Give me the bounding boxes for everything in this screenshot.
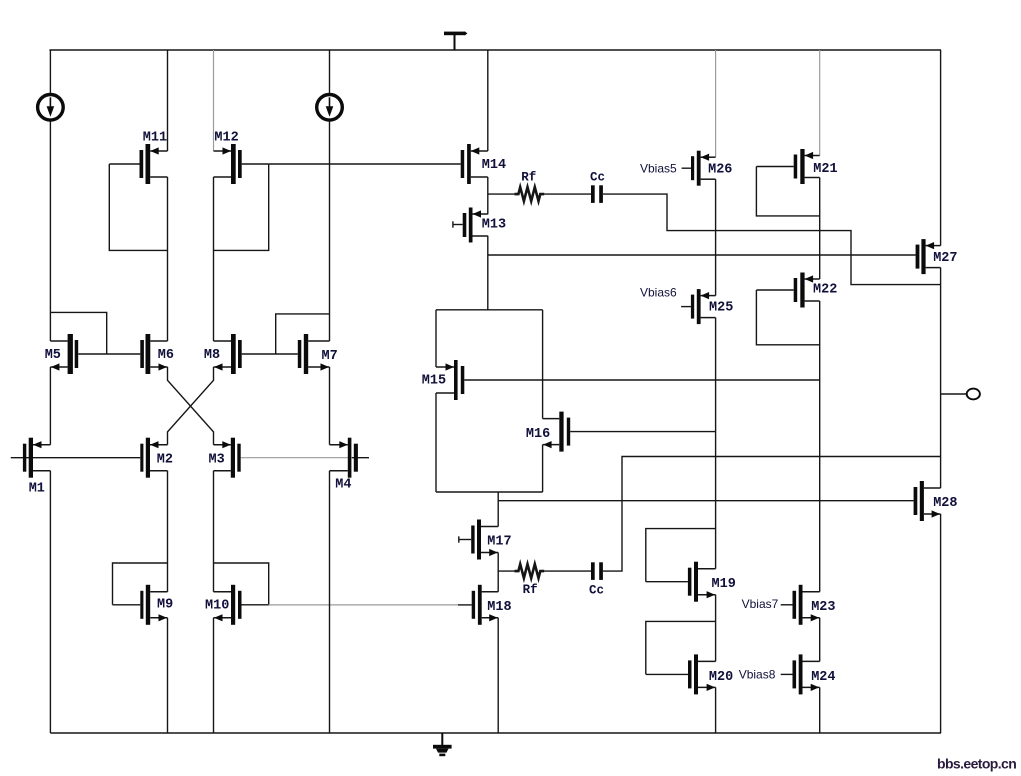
wire M9 diode gate loop (113, 563, 168, 605)
power VDD symbol (444, 31, 467, 50)
wire M21 drain to M22 source (819, 178, 821, 280)
svg-text:M3: M3 (209, 453, 225, 468)
svg-text:M25: M25 (709, 301, 733, 316)
wire node B to Rf2 (498, 570, 514, 572)
current source I1 (38, 95, 64, 121)
wire M5 source to M1 source (49, 367, 51, 445)
wire box to M17 drain (497, 492, 499, 527)
wire Vbias8 stub to M24 gate (781, 673, 793, 675)
wire box right upper to M16 drain (542, 310, 544, 419)
wire M3 drain to M10 drain (213, 471, 215, 592)
transistor M23 (793, 585, 820, 625)
wire M27 gate line (488, 254, 916, 256)
transistor M6 (140, 334, 167, 374)
output terminal (967, 389, 980, 400)
wire VDD to M26 source (715, 50, 717, 157)
wire VDD to M21 source (819, 50, 821, 156)
transistor M9 (140, 585, 167, 625)
svg-text:M5: M5 (45, 348, 61, 363)
transistor M28 (914, 481, 941, 521)
wire M18 source to VSS rail (497, 618, 499, 733)
transistor M3 (214, 438, 241, 478)
svg-text:Vbias5: Vbias5 (640, 162, 677, 176)
transistor M20 (688, 654, 716, 694)
svg-text:M8: M8 (204, 348, 220, 363)
svg-text:M21: M21 (813, 162, 837, 177)
transistor M26 (691, 151, 716, 186)
wire I1 to M5 drain (49, 120, 51, 341)
transistor M21 (794, 149, 820, 184)
svg-text:M24: M24 (811, 670, 835, 685)
wire M5 diode gate-drain loop (50, 312, 106, 354)
wire Rf2 to Cc2 (544, 570, 591, 572)
wire M19 diode gate loop (646, 529, 716, 582)
wire M7 source to M4 source (329, 367, 331, 445)
svg-text:M22: M22 (813, 283, 837, 298)
wire Vbias6 stub to M25 gate (681, 306, 691, 308)
wire M11 drain to M6 drain (167, 177, 169, 341)
svg-text:M7: M7 (322, 349, 338, 364)
wire M5-M6 gate line (78, 353, 140, 355)
svg-text:Vbias7: Vbias7 (742, 597, 779, 611)
svg-text:M4: M4 (335, 478, 351, 493)
wire output stub (941, 393, 967, 395)
transistor M5 (50, 334, 78, 374)
wire M4 drain to VSS rail (329, 471, 331, 733)
transistor M2 (140, 438, 167, 478)
wire Cc2 up and right to output node (603, 457, 941, 572)
wire VDD to M27 source (940, 50, 942, 246)
wire M8 source cross to M2 source (168, 367, 214, 445)
wire M12 gate to M14 gate (269, 163, 461, 165)
wire M23 source to M24 drain (819, 618, 821, 662)
svg-text:Vbias6: Vbias6 (640, 286, 677, 300)
transistor M12 (214, 144, 242, 184)
wire M13 drain down to M15 box (487, 236, 489, 310)
wire Vbias5 stub to M26 gate (682, 167, 691, 169)
wire M10 gate to M18 gate (269, 604, 458, 606)
transistor M25 (691, 289, 716, 324)
wire input IN- to M1/M2 gates (11, 457, 141, 459)
wire M24 source to VSS rail (819, 687, 821, 733)
wire M14 drain to M13 source, node A (487, 177, 489, 214)
transistor M14 (461, 144, 488, 184)
wire M22 diode gate loop (756, 290, 819, 345)
svg-text:M28: M28 (933, 496, 957, 511)
svg-text:M13: M13 (482, 218, 506, 233)
wire Vbias7 stub to M23 gate (781, 604, 793, 606)
svg-text:M9: M9 (157, 598, 173, 613)
wire M7-M8 diode gate loop (242, 314, 330, 354)
capacitor Cc1 (591, 185, 595, 203)
svg-text:M12: M12 (214, 131, 238, 146)
wire M15 gate to M22 drain (464, 379, 819, 381)
transistor M13 (463, 208, 488, 243)
wire M1 drain to VSS rail (49, 471, 51, 733)
wire VSS bottom rail (50, 732, 941, 734)
svg-text:M27: M27 (933, 251, 957, 266)
svg-text:bbs.eetop.cn: bbs.eetop.cn (937, 756, 1016, 772)
wire M13 gate stub (453, 221, 463, 227)
svg-text:Vbias8: Vbias8 (739, 668, 776, 682)
wire M21 diode gate loop (756, 167, 819, 216)
wire M2 drain to M9 drain (167, 471, 169, 592)
svg-text:M23: M23 (811, 600, 835, 615)
svg-text:M17: M17 (487, 535, 511, 550)
wire box left upper to M15 source (435, 310, 437, 367)
transistor M4 (330, 438, 358, 478)
svg-text:M16: M16 (526, 427, 550, 442)
svg-text:M2: M2 (157, 453, 173, 468)
transistor M27 (916, 239, 941, 274)
wire VDD to M12 source (213, 50, 215, 151)
wire node A to Rf1 (488, 193, 515, 195)
svg-text:M10: M10 (205, 599, 229, 614)
wire M20 source to VSS rail (715, 687, 717, 733)
svg-text:M1: M1 (29, 482, 45, 497)
transistor M19 (688, 562, 716, 602)
transistor M11 (140, 144, 168, 184)
wire box bottom (436, 491, 543, 493)
svg-text:M11: M11 (143, 131, 167, 146)
transistor M1 (23, 438, 51, 478)
transistor M17 (471, 520, 498, 560)
svg-text:M26: M26 (708, 163, 732, 178)
svg-text:Cc: Cc (589, 584, 604, 598)
svg-text:Cc: Cc (590, 171, 605, 185)
wire M17 gate stub (459, 536, 471, 542)
capacitor Cc2 (591, 562, 595, 580)
wire M12 diode gate loop (214, 164, 269, 250)
transistor M22 (794, 273, 820, 308)
svg-text:M18: M18 (487, 600, 511, 615)
svg-text:M15: M15 (422, 374, 446, 389)
wire M22 drain down to M23 drain (819, 301, 821, 592)
wire M28 source to VSS rail (940, 514, 942, 733)
transistor M7 (298, 334, 330, 374)
transistor M16 (543, 412, 571, 452)
svg-text:M20: M20 (709, 670, 733, 685)
wire Rf1 to Cc1 (544, 193, 591, 195)
wire M17 source to M18 drain, node B (497, 553, 499, 592)
wire M12 drain to M8 drain (213, 177, 215, 341)
wire M15 box top (436, 309, 543, 311)
wire M11 diode gate loop (109, 164, 167, 250)
transistor M24 (793, 654, 820, 694)
wire M6 source cross to M3 source (168, 367, 214, 445)
wire VDD to M14 source (487, 50, 489, 151)
resistor Rf1 (514, 187, 544, 201)
transistor M15 (436, 360, 464, 400)
wire M16 source to box corner (542, 445, 544, 492)
wire M20 diode gate loop (646, 621, 716, 674)
svg-text:M6: M6 (158, 348, 174, 363)
wire M9 source to VSS rail (167, 618, 169, 733)
wire M15 drain to box bottom (435, 393, 437, 492)
wire M27 drain to output node and M28 drain (940, 268, 942, 488)
wire input IN+ from M3 gate across M4 (241, 457, 352, 459)
transistor M18 (472, 585, 499, 625)
svg-text:M19: M19 (712, 577, 736, 592)
wire M10 diode gate loop (214, 563, 269, 605)
wire VDD to M11 source (167, 50, 169, 151)
wire VDD to current source I2 to M7 drain (329, 50, 331, 341)
svg-text:Rf: Rf (523, 583, 538, 597)
wire VDD top rail (49, 49, 941, 51)
wire M25 drain down cascode column (715, 318, 717, 569)
wire M26 drain to M25 source (715, 179, 717, 295)
svg-text:M14: M14 (482, 158, 506, 173)
wire M16 gate to M25 drain column (570, 431, 715, 433)
current source I2 (317, 95, 343, 121)
wire VDD to current source I1 (49, 50, 51, 95)
wire Cc1 to output node (603, 194, 941, 285)
resistor Rf2 (514, 564, 544, 578)
wire M10 source to VSS rail (213, 618, 215, 733)
wire M28 gate line (498, 500, 913, 502)
ground symbol (433, 733, 452, 756)
transistor M10 (214, 585, 242, 625)
wire M19 source to M20 drain (715, 595, 717, 662)
svg-text:Rf: Rf (521, 171, 536, 185)
transistor M8 (214, 334, 242, 374)
